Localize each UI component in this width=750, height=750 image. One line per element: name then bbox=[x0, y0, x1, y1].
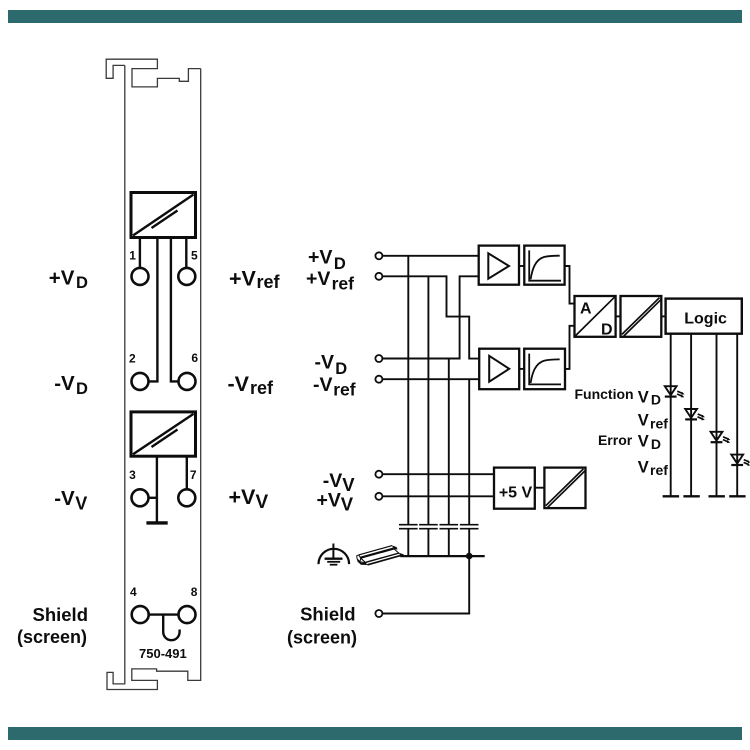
svg-text:1: 1 bbox=[129, 248, 136, 262]
svg-text:(screen): (screen) bbox=[17, 627, 87, 647]
node -VD bbox=[375, 355, 382, 362]
wire +VV to 5V box bbox=[382, 495, 494, 497]
5V box bbox=[494, 468, 535, 509]
capacitor C1 bbox=[399, 525, 418, 529]
svg-text:+V: +V bbox=[229, 266, 257, 290]
svg-text:ref: ref bbox=[650, 415, 668, 431]
svg-text:D: D bbox=[335, 360, 347, 378]
link amp1 filter1 bbox=[519, 265, 524, 267]
svg-text:V: V bbox=[256, 492, 269, 513]
capacitor C4 bbox=[460, 525, 479, 529]
link AD to isolator bbox=[616, 315, 621, 317]
wires bbox=[382, 256, 494, 614]
carrier rail bar top bbox=[8, 10, 742, 23]
svg-text:ref: ref bbox=[250, 378, 274, 398]
svg-text:-V: -V bbox=[54, 372, 75, 395]
svg-text:+V: +V bbox=[49, 266, 75, 289]
svg-text:A: A bbox=[580, 301, 592, 318]
svg-text:+V: +V bbox=[306, 268, 330, 290]
link isolator to logic bbox=[661, 315, 665, 317]
svg-text:D: D bbox=[334, 255, 346, 273]
filter lower bbox=[524, 349, 565, 390]
terminal 3 bbox=[132, 489, 149, 506]
terminal 1 bbox=[132, 268, 149, 285]
logic box bbox=[666, 299, 742, 334]
LED Function VD bbox=[665, 386, 685, 397]
svg-text:Shield: Shield bbox=[300, 604, 356, 625]
svg-text:V: V bbox=[638, 388, 649, 406]
svg-text:D: D bbox=[651, 436, 661, 452]
svg-text:-V: -V bbox=[313, 374, 333, 396]
wire filter2 to AD bbox=[565, 326, 575, 369]
cap drop 3 bbox=[448, 359, 450, 557]
svg-text:+5 V: +5 V bbox=[499, 485, 533, 502]
wire -Vref to amp2 bbox=[382, 378, 479, 380]
svg-text:Logic: Logic bbox=[684, 310, 727, 327]
isolator box upper bbox=[621, 296, 662, 337]
svg-text:-V: -V bbox=[228, 372, 250, 396]
node +VV bbox=[375, 493, 382, 500]
wire filter1 to AD bbox=[565, 266, 575, 304]
node +VD bbox=[375, 252, 382, 259]
capacitor C2 bbox=[419, 525, 438, 529]
svg-text:6: 6 bbox=[191, 351, 198, 365]
amplifier upper bbox=[479, 246, 519, 285]
svg-text:8: 8 bbox=[191, 585, 198, 599]
LED Vref bbox=[685, 409, 705, 420]
terminal 8 bbox=[179, 606, 196, 623]
wire shield bbox=[382, 556, 469, 613]
converter box 2 bbox=[131, 412, 196, 456]
pins of box 2 bbox=[149, 456, 187, 523]
wire terminal 4 to 8 bbox=[149, 613, 179, 615]
svg-text:+V: +V bbox=[308, 247, 332, 269]
svg-text:V: V bbox=[75, 494, 87, 514]
svg-text:+V: +V bbox=[229, 485, 257, 509]
link 5V to isolator bbox=[535, 487, 545, 489]
svg-text:V: V bbox=[638, 433, 649, 451]
svg-text:7: 7 bbox=[190, 468, 197, 482]
cap drop 1 bbox=[407, 256, 409, 556]
ground bus bbox=[400, 555, 484, 557]
node +Vref bbox=[375, 273, 382, 280]
svg-text:Error: Error bbox=[598, 432, 633, 448]
shield loop bbox=[163, 615, 179, 641]
svg-text:+V: +V bbox=[317, 490, 341, 512]
cap drop 4 bbox=[468, 379, 470, 556]
svg-text:750-491: 750-491 bbox=[139, 646, 187, 661]
terminal 5 bbox=[178, 268, 195, 285]
cap drop 2 bbox=[427, 276, 429, 556]
earth symbol bbox=[319, 544, 350, 565]
node Shield bbox=[375, 610, 382, 617]
filter upper bbox=[524, 246, 564, 285]
svg-text:4: 4 bbox=[130, 585, 137, 599]
terminal 2 bbox=[132, 373, 149, 390]
node -Vref bbox=[375, 376, 382, 383]
terminal 7 bbox=[178, 489, 195, 506]
svg-text:Function: Function bbox=[574, 386, 633, 402]
module 750-491 outline bbox=[106, 59, 201, 689]
svg-text:D: D bbox=[651, 392, 661, 408]
capacitor C3 bbox=[440, 525, 459, 529]
svg-text:V: V bbox=[341, 494, 354, 515]
node -VV bbox=[375, 471, 382, 478]
internal ground bar bbox=[146, 521, 167, 524]
svg-text:5: 5 bbox=[191, 248, 198, 262]
terminal 6 bbox=[179, 373, 196, 390]
carrier rail bar bottom bbox=[8, 727, 742, 740]
LED Error Vref bbox=[731, 455, 750, 466]
svg-text:2: 2 bbox=[129, 351, 136, 365]
svg-text:D: D bbox=[601, 322, 613, 339]
svg-text:3: 3 bbox=[129, 468, 136, 482]
LED drive lines bbox=[671, 334, 738, 497]
svg-text:ref: ref bbox=[332, 273, 355, 293]
wire -VD riser to amp1 bbox=[382, 276, 478, 358]
capacitor plates bbox=[399, 525, 479, 529]
junction dot bbox=[466, 553, 473, 560]
isolator box lower bbox=[544, 468, 585, 509]
svg-text:ref: ref bbox=[333, 379, 356, 399]
svg-text:V: V bbox=[638, 458, 649, 476]
wire +VD to amp1 bbox=[382, 255, 478, 257]
LED Error VD bbox=[711, 432, 731, 443]
svg-text:Shield: Shield bbox=[32, 604, 88, 625]
amplifier lower bbox=[479, 349, 519, 390]
svg-text:-V: -V bbox=[54, 487, 75, 510]
svg-text:-V: -V bbox=[315, 352, 335, 374]
wire +Vref jog to amp2 bbox=[382, 276, 479, 358]
svg-text:(screen): (screen) bbox=[287, 628, 357, 648]
svg-text:D: D bbox=[76, 274, 88, 292]
converter box 1 bbox=[131, 193, 196, 238]
LED line end bars bbox=[663, 495, 746, 497]
svg-text:V: V bbox=[638, 412, 649, 430]
DIN rail symbol bbox=[357, 545, 405, 565]
svg-text:ref: ref bbox=[257, 272, 281, 292]
link amp2 filter2 bbox=[519, 368, 524, 370]
svg-text:D: D bbox=[76, 380, 88, 398]
AD converter box bbox=[575, 296, 616, 337]
wire -VV to 5V box bbox=[382, 473, 494, 475]
svg-text:ref: ref bbox=[650, 462, 668, 478]
pins of box 1 bbox=[140, 238, 186, 382]
svg-text:V: V bbox=[342, 474, 355, 495]
terminal 4 bbox=[132, 606, 149, 623]
